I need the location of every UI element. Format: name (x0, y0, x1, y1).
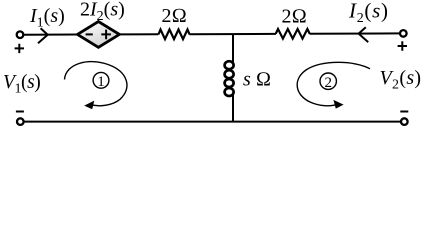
wire: middle branch vertical upper (232, 34, 234, 63)
wire: from R1 across middle node to resistor R2 (189, 33, 276, 35)
terminal: top-right port (open circle) (400, 30, 407, 37)
arrowhead: mesh loop 1 (84, 101, 94, 110)
wire: top-left segment from terminal to dependent source (24, 34, 78, 36)
svg-text:1: 1 (97, 74, 105, 90)
svg-text:2Ω: 2Ω (162, 5, 187, 27)
label: circled 2 (320, 73, 336, 89)
wire: middle branch vertical lower (232, 95, 234, 122)
arrowhead: mesh loop 2 (333, 100, 343, 109)
label: + polarity top-left (15, 44, 24, 53)
terminal: top-left port (open circle) (17, 31, 24, 38)
resistor R2: 2 ohm zigzag (276, 29, 310, 39)
wire: from R2 to top-right terminal (310, 32, 401, 34)
inductor L: s ohm coil (225, 61, 234, 96)
resistor R1: 2 ohm zigzag (159, 29, 190, 39)
svg-text:2Ω: 2Ω (282, 6, 307, 28)
svg-text:I2(s): I2(s) (348, 0, 389, 26)
svg-text:V1(s): V1(s) (3, 72, 40, 97)
mesh loop 2: arc (297, 62, 370, 105)
svg-text:V2(s): V2(s) (380, 67, 422, 93)
label: minus polarity bottom-left (16, 111, 24, 113)
svg-text:s Ω: s Ω (243, 69, 271, 91)
label: + polarity top-right (398, 41, 407, 50)
label: minus polarity bottom-right (400, 111, 408, 113)
label: plus sign inside diamond (101, 30, 111, 40)
label: circled 1 (93, 72, 109, 88)
arrow: current I2(s) direction on wire (pointing left) (359, 27, 369, 42)
terminal: bottom-left port (open circle) (17, 118, 24, 125)
mesh loop 1: clockwise arc (65, 62, 127, 106)
svg-text:2: 2 (324, 75, 332, 91)
svg-text:I1(s): I1(s) (29, 5, 65, 31)
label: minus sign inside diamond (86, 33, 93, 35)
wire: bottom rail (24, 121, 400, 123)
wire: from source to resistor R1 (119, 33, 158, 35)
terminal: bottom-right port (open circle) (401, 118, 408, 125)
arrow: current I1(s) direction on wire (38, 28, 48, 43)
dependent source: diamond 2I2(s) controlled voltage source (77, 22, 119, 48)
